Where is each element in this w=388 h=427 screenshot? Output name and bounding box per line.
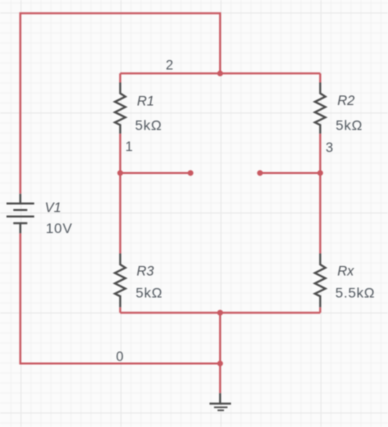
svg-text:R2: R2 — [337, 93, 355, 108]
svg-text:Rx: Rx — [337, 264, 355, 279]
svg-text:3: 3 — [326, 140, 334, 155]
svg-text:0: 0 — [116, 349, 124, 364]
svg-text:1: 1 — [125, 139, 133, 154]
svg-text:R1: R1 — [137, 93, 154, 108]
svg-text:10V: 10V — [46, 220, 73, 236]
svg-text:5kΩ: 5kΩ — [336, 117, 363, 133]
svg-text:2: 2 — [166, 57, 174, 72]
svg-text:5.5kΩ: 5.5kΩ — [335, 285, 375, 301]
svg-text:V1: V1 — [45, 200, 62, 215]
svg-text:5kΩ: 5kΩ — [136, 285, 163, 301]
svg-text:R3: R3 — [137, 264, 155, 279]
svg-text:5kΩ: 5kΩ — [135, 117, 162, 133]
